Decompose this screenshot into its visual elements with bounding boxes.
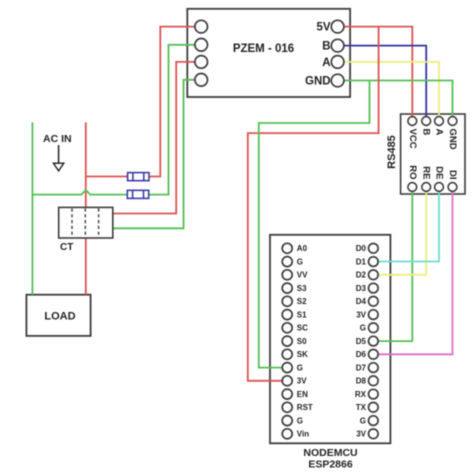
NodeMCU left pin S1: [282, 310, 307, 320]
svg-text:G: G: [360, 416, 366, 425]
svg-text:CT: CT: [60, 242, 73, 253]
NodeMCU left pin G: [282, 416, 303, 426]
RS485 pin A: [434, 117, 445, 136]
wire: PZEM 5V to RS485 VCC (red): [338, 27, 413, 121]
NodeMCU right pin D3: [356, 283, 378, 293]
svg-text:GND: GND: [447, 129, 458, 150]
svg-text:B: B: [421, 129, 432, 136]
wire: RS485 RE to NodeMCU D2 (yellow): [373, 187, 426, 275]
PZEM-016 module U1 body: [187, 9, 350, 97]
wire: green branch with hop over red vertical, to fuse F2: [32, 190, 127, 195]
NodeMCU left pin SC: [282, 323, 308, 333]
RS485 pin RO: [407, 165, 418, 191]
PZEM pin 4: [195, 74, 208, 87]
svg-text:B: B: [322, 41, 330, 53]
wire: fuse F1 to PZEM pin1: [149, 27, 202, 177]
svg-text:S0: S0: [297, 337, 307, 346]
svg-text:A0: A0: [297, 244, 308, 253]
NodeMCU right pin D8: [356, 376, 378, 386]
LOAD box: [26, 295, 90, 336]
svg-text:RO: RO: [407, 165, 418, 179]
wire: 5V branch down-left to NodeMCU 3V (red): [248, 27, 379, 381]
PZEM pin 3: [195, 56, 208, 69]
AC IN arrow: [58, 145, 60, 163]
NodeMCU right pin D4: [356, 297, 378, 307]
NodeMCU right pin D5: [356, 336, 378, 346]
NodeMCU left pin 3V: [282, 376, 307, 386]
wire: red branch to fuse F1: [86, 176, 128, 178]
svg-text:D3: D3: [356, 284, 367, 293]
svg-text:RST: RST: [297, 403, 313, 412]
svg-text:ESP2866: ESP2866: [308, 459, 353, 471]
svg-text:LOAD: LOAD: [44, 311, 75, 323]
svg-text:RX: RX: [355, 390, 367, 399]
NodeMCU left pin VV: [282, 270, 308, 280]
svg-text:DE: DE: [434, 166, 445, 179]
svg-text:A: A: [434, 129, 445, 136]
NodeMCU right pin 3V: [356, 310, 378, 320]
NodeMCU right pin D1: [356, 257, 378, 267]
fuse F1: [128, 173, 149, 181]
svg-text:G: G: [297, 257, 303, 266]
PZEM pin 2: [195, 39, 208, 52]
wire: PZEM GND to RS485 GND (green): [338, 81, 453, 122]
wire: AC neutral (green) vertical AC IN to LOAD: [31, 122, 33, 294]
wire: PZEM B to RS485 B (navy): [338, 46, 427, 121]
RS485 module U2 body: [401, 114, 465, 194]
RS485 pin DE: [434, 166, 445, 191]
svg-text:G: G: [297, 363, 303, 372]
PZEM pin A: [322, 56, 344, 69]
svg-text:S3: S3: [297, 284, 307, 293]
svg-text:D6: D6: [356, 350, 367, 359]
svg-text:3V: 3V: [356, 430, 366, 439]
fuse F2: [127, 190, 148, 198]
wire: PZEM A to RS485 A (yellow): [338, 62, 439, 121]
PZEM pin 5V: [317, 20, 344, 33]
NodeMCU left pin G: [282, 363, 303, 373]
svg-text:G: G: [297, 416, 303, 425]
NodeMCU right pin RX: [355, 389, 378, 399]
NodeMCU left pin RST: [282, 402, 313, 412]
RS485 pin GND: [447, 117, 458, 150]
svg-text:A: A: [322, 57, 330, 69]
svg-text:D8: D8: [356, 377, 367, 386]
wire: RS485 RO to NodeMCU D5 (green): [373, 187, 412, 341]
svg-text:D1: D1: [356, 257, 367, 266]
NodeMCU left pin EN: [282, 389, 308, 399]
NodeMCU right pin D7: [356, 363, 378, 373]
svg-text:S1: S1: [297, 310, 307, 319]
RS485 pin RE: [421, 166, 432, 191]
RS485 pin B: [421, 117, 432, 136]
wire: CT red output to PZEM pin3: [113, 62, 202, 214]
svg-text:EN: EN: [297, 390, 308, 399]
NodeMCU right pin G: [360, 416, 378, 426]
svg-text:VV: VV: [297, 271, 308, 280]
svg-text:SC: SC: [297, 324, 308, 333]
svg-text:3V: 3V: [356, 310, 366, 319]
svg-text:SK: SK: [297, 350, 308, 359]
svg-text:D5: D5: [356, 337, 367, 346]
svg-text:PZEM - 016: PZEM - 016: [233, 43, 294, 55]
RS485 pin DI: [447, 170, 458, 191]
svg-text:RE: RE: [421, 166, 432, 179]
NodeMCU left pin Vin: [282, 429, 309, 439]
wire: AC live (red) vertical AC IN to LOAD: [85, 122, 87, 294]
svg-text:RS485: RS485: [386, 135, 398, 169]
NodeMCU right pin D6: [356, 350, 378, 360]
NodeMCU ESP2866 module U3 body: [270, 235, 390, 443]
NodeMCU right pin TX: [356, 403, 378, 413]
svg-text:3V: 3V: [297, 377, 307, 386]
PZEM pin GND: [305, 74, 344, 87]
svg-text:NODEMCU: NODEMCU: [303, 447, 357, 459]
svg-text:TX: TX: [356, 403, 367, 412]
svg-text:D0: D0: [356, 244, 367, 253]
NodeMCU left pin A0: [282, 243, 307, 253]
svg-text:D2: D2: [356, 271, 367, 280]
RS485 pin VCC: [407, 117, 418, 149]
svg-text:Vin: Vin: [297, 430, 309, 439]
wire: GND branch down-left to NodeMCU G (green): [259, 81, 370, 368]
wire: RS485 DI to NodeMCU D6 (magenta): [373, 187, 452, 354]
NodeMCU left pin S0: [282, 336, 307, 346]
wire: RS485 DE to NodeMCU D1 (cyan): [373, 187, 439, 262]
NodeMCU left pin S3: [282, 283, 307, 293]
current transformer CT: [59, 207, 113, 238]
wire: CT green output to PZEM pin4: [113, 80, 202, 229]
NodeMCU right pin D2: [356, 270, 378, 280]
svg-text:D4: D4: [356, 297, 367, 306]
PZEM pin 1: [195, 20, 208, 33]
svg-text:VCC: VCC: [407, 129, 418, 149]
svg-text:5V: 5V: [317, 22, 331, 34]
PZEM pin B: [322, 39, 344, 52]
svg-text:G: G: [360, 324, 366, 333]
NodeMCU right pin 3V: [356, 429, 378, 439]
NodeMCU right pin D0: [356, 244, 378, 254]
svg-text:D7: D7: [356, 363, 367, 372]
NodeMCU left pin SK: [282, 349, 308, 359]
wire: fuse F2 to PZEM pin2: [149, 45, 202, 195]
svg-text:DI: DI: [447, 170, 458, 180]
svg-text:AC IN: AC IN: [43, 133, 72, 145]
svg-text:S2: S2: [297, 297, 307, 306]
NodeMCU left pin S2: [282, 296, 307, 306]
svg-text:GND: GND: [305, 76, 331, 88]
NodeMCU left pin G: [282, 257, 303, 267]
NodeMCU right pin G: [360, 323, 378, 333]
